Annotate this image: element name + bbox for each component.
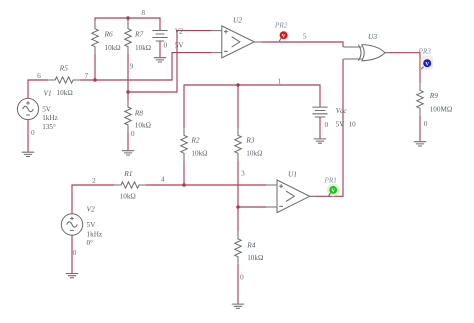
svg-text:U1: U1: [288, 170, 297, 179]
node 1 label: [278, 77, 282, 86]
probe PR1: [327, 184, 340, 197]
U3 label: [368, 32, 377, 41]
node 0 label at R8: [131, 129, 135, 138]
U2 label: [233, 15, 242, 24]
node 4 label: [161, 175, 165, 184]
resistor R2: [181, 128, 187, 160]
svg-text:6: 6: [37, 71, 41, 80]
R1 labels: [120, 169, 136, 200]
svg-text:0: 0: [31, 128, 35, 137]
node 0 label at V2 battery: [163, 41, 167, 50]
ground under V2 battery: [154, 58, 167, 62]
svg-text:5: 5: [303, 31, 307, 40]
wire R9 bottom to ground: [419, 115, 421, 141]
junction node 4 at R2 bottom: [182, 183, 185, 186]
svg-text:U2: U2: [233, 15, 242, 24]
svg-text:5V: 5V: [42, 105, 52, 113]
PR3 label: [418, 48, 432, 56]
svg-text:U3: U3: [368, 32, 377, 41]
svg-text:2: 2: [92, 176, 96, 185]
ground under R4: [232, 304, 245, 308]
resistor R3: [235, 128, 241, 160]
ground under R9: [414, 142, 427, 146]
svg-text:100MΩ: 100MΩ: [430, 106, 453, 114]
svg-text:V2: V2: [175, 27, 184, 36]
svg-text:9: 9: [130, 62, 134, 71]
wire node 7: [28, 53, 211, 99]
R2 labels: [190, 136, 207, 158]
PR1 label: [324, 176, 337, 184]
svg-text:V1: V1: [44, 89, 52, 98]
svg-text:1kHz: 1kHz: [87, 230, 103, 238]
wire node 4: [72, 160, 266, 214]
wire U1 out to XOR bottom input: [316, 59, 343, 196]
battery Vcc: [312, 107, 327, 117]
svg-text:4: 4: [161, 175, 165, 184]
node 0 label at R9: [424, 119, 428, 128]
node 0 label at V2 ac: [73, 248, 77, 257]
svg-text:10kΩ: 10kΩ: [57, 89, 73, 97]
op-amp U1: [266, 180, 316, 213]
svg-text:V: V: [282, 33, 286, 39]
svg-text:R8: R8: [134, 109, 144, 118]
wire node 3: [238, 160, 266, 232]
wire V2 battery bottom: [159, 41, 161, 58]
V1 labels: [42, 89, 58, 131]
node 5 label: [303, 31, 307, 40]
wire R8 bottom to ground: [127, 132, 129, 151]
svg-text:R5: R5: [59, 63, 69, 72]
svg-text:10kΩ: 10kΩ: [120, 193, 136, 201]
node 9 label: [130, 62, 134, 71]
wire V1 bottom to ground: [27, 120, 29, 152]
node 6 label: [37, 71, 41, 80]
svg-text:R1: R1: [123, 169, 132, 178]
wire node 5 U2 out to XOR top input: [262, 42, 344, 47]
R9 labels: [429, 91, 453, 114]
probe PR2: [279, 31, 287, 41]
junction node 1 at R3 top: [236, 83, 239, 86]
node 0 label at R4: [240, 273, 244, 282]
svg-text:10kΩ: 10kΩ: [191, 150, 207, 158]
ground under R8: [122, 151, 135, 155]
svg-text:R2: R2: [190, 136, 200, 145]
AC source V1: [17, 98, 38, 119]
XOR gate U3: [344, 45, 390, 61]
svg-text:R4: R4: [246, 240, 256, 249]
Vcc labels: [336, 106, 356, 129]
svg-text:1kHz: 1kHz: [42, 114, 58, 122]
R6 labels: [104, 29, 121, 52]
op-amp U2: [211, 26, 261, 58]
R3 labels: [245, 136, 262, 158]
svg-text:0: 0: [131, 129, 135, 138]
R5 labels: [57, 63, 73, 97]
resistor R4: [235, 232, 241, 264]
svg-text:5V: 5V: [175, 42, 185, 50]
R8 labels: [134, 109, 151, 130]
svg-text:10kΩ: 10kΩ: [246, 150, 262, 158]
R7 labels: [134, 29, 151, 52]
V2 ac labels: [87, 204, 103, 247]
svg-text:10kΩ: 10kΩ: [105, 44, 121, 52]
AC source V2: [61, 214, 82, 235]
svg-text:PR2: PR2: [274, 22, 288, 30]
svg-text:10: 10: [349, 120, 357, 128]
svg-text:0: 0: [163, 41, 167, 50]
svg-text:8: 8: [141, 8, 145, 17]
svg-text:V: V: [425, 62, 429, 68]
svg-text:V: V: [331, 188, 335, 194]
resistor R9: [417, 83, 423, 115]
battery V2 top: [153, 31, 168, 42]
V2 battery labels: [175, 27, 185, 50]
resistor R5: [48, 77, 80, 83]
svg-text:0: 0: [240, 273, 244, 282]
svg-text:PR3: PR3: [418, 48, 432, 56]
ground under V1: [22, 152, 35, 156]
svg-text:5V: 5V: [336, 120, 346, 128]
svg-text:R6: R6: [104, 29, 114, 38]
probe PR3: [420, 56, 433, 70]
node 8 label: [141, 8, 145, 17]
wire node 1: [184, 85, 320, 128]
svg-text:5V: 5V: [87, 221, 97, 229]
junction node 7 at R6 bottom: [93, 78, 96, 81]
junction node 9: [126, 90, 129, 93]
resistor R1: [114, 182, 146, 188]
junction node 8 at R7 top: [126, 16, 129, 19]
svg-text:0: 0: [73, 248, 77, 257]
node 0 label at Vcc: [325, 120, 329, 129]
svg-text:R9: R9: [429, 91, 439, 100]
node 7 label: [85, 71, 89, 80]
svg-text:R3: R3: [245, 136, 255, 145]
svg-text:Vcc: Vcc: [336, 106, 348, 115]
svg-text:1: 1: [278, 77, 282, 86]
svg-text:R7: R7: [134, 29, 144, 38]
node 2 label: [92, 176, 96, 185]
junction node 3 at U1 minus: [236, 205, 239, 208]
node 3 label: [241, 168, 245, 177]
node 0 label at V1: [31, 128, 35, 137]
svg-text:V2: V2: [87, 204, 96, 213]
wire node 9: [128, 31, 211, 100]
wire XOR output to R9: [390, 53, 421, 84]
resistor R7: [125, 22, 131, 54]
PR2 label: [274, 22, 288, 30]
svg-text:PR1: PR1: [324, 176, 337, 184]
ground under V2 ac: [66, 274, 79, 278]
R4 labels: [246, 240, 263, 262]
svg-text:135°: 135°: [42, 123, 56, 131]
svg-text:7: 7: [85, 71, 89, 80]
svg-text:0: 0: [325, 120, 329, 129]
svg-text:10kΩ: 10kΩ: [247, 254, 263, 262]
wire R4 bottom to ground: [237, 264, 239, 304]
wire V2 ac bottom to ground: [71, 235, 73, 273]
ground under Vcc battery: [314, 139, 327, 143]
wire Vcc battery bottom: [319, 117, 321, 139]
wire node 8 top: [95, 18, 160, 31]
svg-text:10kΩ: 10kΩ: [135, 44, 151, 52]
svg-text:3: 3: [241, 168, 245, 177]
U1 label: [288, 170, 297, 179]
resistor R6: [92, 22, 98, 54]
svg-text:0: 0: [424, 119, 428, 128]
svg-text:0°: 0°: [87, 239, 94, 247]
resistor R8: [125, 100, 131, 132]
svg-text:10kΩ: 10kΩ: [135, 121, 151, 129]
